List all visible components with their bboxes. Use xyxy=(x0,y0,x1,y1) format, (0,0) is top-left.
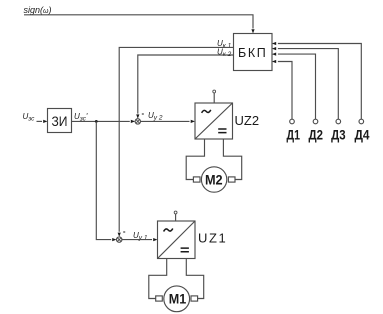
converter UZ2 xyxy=(195,103,259,139)
motor M1 xyxy=(164,286,190,312)
UZ1 supply terminal xyxy=(174,211,177,221)
label Uy2 xyxy=(148,111,163,122)
node branch dot on Uzs' wire xyxy=(95,120,98,123)
svg-text:UZ2: UZ2 xyxy=(235,113,260,128)
svg-text:Д3: Д3 xyxy=(331,126,346,142)
label Uzs xyxy=(23,112,36,123)
wire sensor D1 to BKP xyxy=(272,60,292,119)
svg-text:-: - xyxy=(123,227,126,236)
sensor D1 terminal xyxy=(287,119,301,142)
svg-text:БКП: БКП xyxy=(238,46,267,60)
svg-text:-: - xyxy=(142,109,145,118)
svg-text:М1: М1 xyxy=(169,291,187,307)
wire ZI output to upper summing junction xyxy=(72,120,136,123)
svg-text:UZ1: UZ1 xyxy=(198,231,227,246)
wire Uy2 to UZ2 xyxy=(141,120,196,123)
svg-text:ЗИ: ЗИ xyxy=(52,114,68,129)
wires UZ1 to motor M1 xyxy=(149,259,204,299)
wire sign(omega) to BKP top xyxy=(24,15,255,34)
label Uy1 xyxy=(133,231,148,242)
svg-text:Д2: Д2 xyxy=(308,126,323,142)
wire sensor D2 to BKP xyxy=(272,53,316,120)
label Uzs' xyxy=(74,112,88,123)
motor M1 brush terminals xyxy=(156,296,198,301)
lower summing junction xyxy=(117,227,126,242)
sensor D2 terminal xyxy=(308,119,323,142)
motor M2 xyxy=(201,167,226,192)
sensor D4 terminal xyxy=(355,119,370,142)
svg-text:Д1: Д1 xyxy=(287,126,301,142)
wire Uk2 from BKP to upper summing junction xyxy=(136,55,233,119)
UZ2 supply terminal xyxy=(213,90,216,103)
wires UZ2 to motor M2 xyxy=(186,139,242,180)
block ZI xyxy=(48,109,72,133)
sensor D3 terminal xyxy=(331,119,346,142)
label Uk1 xyxy=(217,39,232,50)
converter UZ1 xyxy=(158,221,228,259)
wire sensor D3 to BKP xyxy=(272,47,338,119)
upper summing junction xyxy=(135,109,144,124)
wire Uk1 from BKP to lower summing junction xyxy=(118,47,234,237)
wire branch down to lower summing junction xyxy=(96,121,116,241)
wire Uzs input to ZI xyxy=(37,120,48,123)
svg-text:М2: М2 xyxy=(205,172,223,187)
label sign(omega) xyxy=(24,5,52,15)
svg-text:Д4: Д4 xyxy=(355,126,370,142)
motor M2 brush terminals xyxy=(193,177,235,182)
block BKP xyxy=(234,34,273,71)
label Uk2 xyxy=(217,47,232,58)
wire sensor D4 to BKP xyxy=(272,42,361,119)
wire Uy1 to UZ1 xyxy=(122,238,158,241)
